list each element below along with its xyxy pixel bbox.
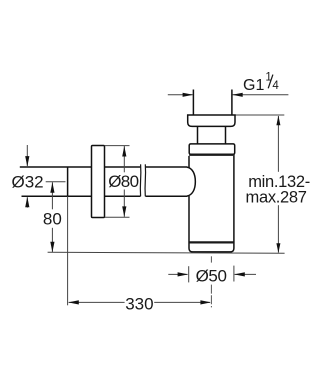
svg-text:Ø32: Ø32 [12,172,44,191]
bottle bottom separator thick line [189,241,234,243]
pipe end joint vertical [67,167,69,196]
pipe end rounded cap bulge [187,167,195,196]
extension line top (flange top to min/max dim) [235,114,284,116]
svg-text:80: 80 [43,210,62,229]
pipe break wavy lines [140,164,145,196]
dimension 330 [69,301,210,303]
top flange [188,115,235,126]
dimension Ø32 [26,145,28,208]
top tailpipe [193,90,232,116]
band bottom thick line [189,154,235,156]
svg-text:Ø80: Ø80 [108,172,138,191]
dimension Ø50 [168,266,256,283]
dimension G1 1/4 line left [168,94,289,96]
dimension min/max [277,116,279,253]
centerline under bottle [210,256,212,307]
horizontal pipe top line [20,167,187,196]
wall flange [92,146,105,218]
bottle left edge upper segment [188,156,190,168]
svg-text:4: 4 [272,80,279,92]
extension line from pipe end down to 330 dim [67,196,69,305]
neck [198,126,226,144]
svg-text:330: 330 [125,294,153,313]
dimension Ø80 extension lines [105,146,130,218]
long extension line under bottle [48,252,285,253]
label G1 1/4 [243,72,279,94]
svg-text:Ø50: Ø50 [196,267,227,286]
arrowheads G1 1/4 [183,93,243,97]
bottle body outline [189,156,234,252]
dimension 80 [46,181,66,183]
svg-text:max.287: max.287 [246,188,307,206]
svg-text:G1: G1 [243,77,264,94]
top nut band of bottle [189,144,235,154]
